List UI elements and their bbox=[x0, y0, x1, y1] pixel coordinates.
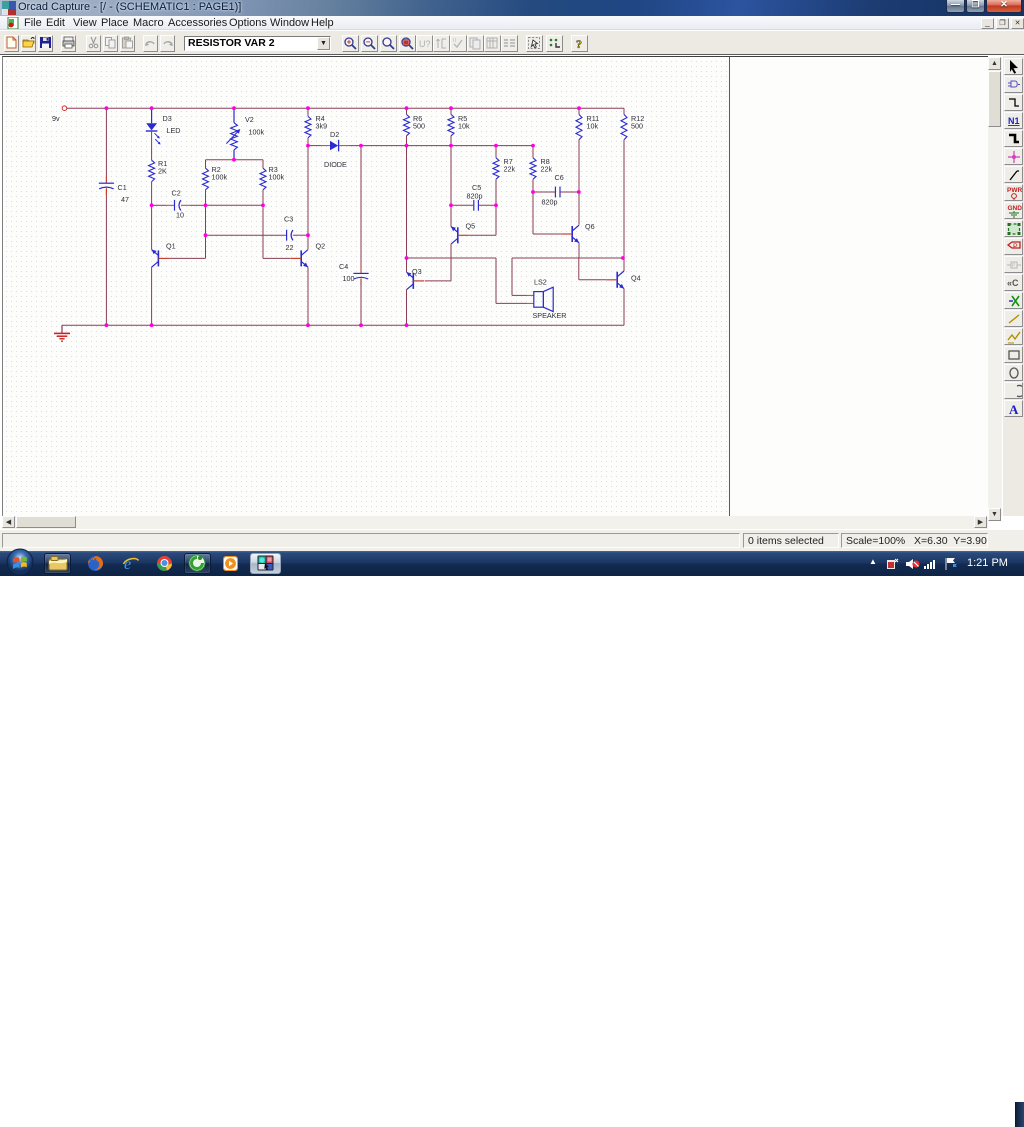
wire (C5 to R7 node) bbox=[478, 204, 496, 206]
wire (R2 top lead) bbox=[205, 160, 207, 169]
transistor Q2 bbox=[301, 250, 308, 268]
wire (Q1 base wire) bbox=[169, 257, 205, 259]
resistor R6 bbox=[404, 114, 410, 135]
wire (Q2 collector up) bbox=[307, 235, 309, 249]
junction bbox=[494, 203, 498, 207]
wire (C4 top lead) bbox=[360, 146, 362, 274]
wire (R6 bottom lead) bbox=[406, 136, 408, 146]
transistor Q4 base pin bbox=[606, 279, 617, 281]
wire (R8 top lead) bbox=[532, 146, 534, 158]
wire (Q1 collector to ground rail) bbox=[151, 267, 153, 325]
wire (C6 to R11 node) bbox=[560, 191, 579, 193]
capacitor C2 (polarized) bbox=[175, 200, 181, 211]
wire (9v top rail) bbox=[67, 107, 624, 109]
schematic drawing bbox=[0, 0, 1024, 576]
wire (node to Q5 emitter) bbox=[450, 205, 452, 226]
svg-text:▣: ▣ bbox=[402, 38, 410, 47]
svg-text:−: − bbox=[366, 38, 371, 47]
junction bbox=[494, 144, 498, 148]
junction bbox=[306, 233, 310, 237]
junction bbox=[621, 256, 625, 260]
resistor R2 bbox=[203, 168, 209, 190]
transistor Q3 bbox=[407, 272, 414, 290]
junction bbox=[204, 203, 208, 207]
junction bbox=[150, 106, 154, 110]
resistor R8 bbox=[530, 158, 536, 179]
wire (to C5) bbox=[451, 204, 474, 206]
wire (Q6 collector up) bbox=[578, 192, 580, 225]
taskbar bbox=[0, 551, 1024, 576]
junction bbox=[306, 106, 310, 110]
capacitor C1 (polarized) bbox=[105, 176, 107, 183]
junction bbox=[405, 323, 409, 327]
wire (R7 top lead) bbox=[495, 146, 497, 158]
wire (to C2) bbox=[152, 204, 166, 206]
junction bbox=[449, 144, 453, 148]
horizontal scrollbar bbox=[2, 516, 988, 529]
wire (R11 bottom lead) bbox=[578, 140, 580, 192]
resistor R4 bbox=[305, 116, 311, 137]
wire (speaker upper riser) bbox=[511, 258, 513, 295]
capacitor C5 bbox=[474, 200, 479, 211]
right tool palette bbox=[1003, 56, 1024, 516]
wire (C1 top lead) bbox=[105, 108, 107, 183]
wire (Q6 emitter to Q4 base riser) bbox=[578, 258, 580, 280]
svg-text:P: P bbox=[1013, 244, 1018, 251]
wire (R7 bottom lead) bbox=[495, 179, 497, 205]
wire (R5 top lead) bbox=[450, 108, 452, 114]
wire (D3 cathode to R1) bbox=[151, 131, 153, 160]
toolbar bbox=[0, 31, 1024, 55]
resistor R5 bbox=[448, 114, 454, 135]
svg-text:U?: U? bbox=[419, 39, 431, 49]
transistor Q4 bbox=[617, 271, 624, 289]
wire (to Q2 base) bbox=[263, 257, 290, 259]
wire (to C6) bbox=[533, 191, 555, 193]
junction bbox=[405, 256, 409, 260]
wire (R12 line down) bbox=[623, 140, 625, 258]
transistor Q3 base pin bbox=[413, 280, 424, 282]
pin (D2 anode pin) bbox=[321, 145, 330, 147]
junction bbox=[232, 106, 236, 110]
wire (low rail right) bbox=[512, 257, 623, 259]
wire (R2 bottom lead) bbox=[205, 190, 207, 206]
capacitor C4 (polarized) bbox=[360, 266, 362, 273]
transistor Q6 bbox=[572, 225, 579, 243]
wire (Q5 base riser) bbox=[495, 205, 497, 235]
junction bbox=[449, 106, 453, 110]
wire (C2 to R2 node) bbox=[190, 204, 206, 206]
wire (R12 top lead) bbox=[623, 108, 625, 114]
resistor R11 bbox=[576, 114, 582, 139]
wire (R2-R3 top) bbox=[206, 159, 264, 161]
wire (R8 line down) bbox=[532, 192, 534, 234]
junction bbox=[306, 323, 310, 327]
wire (R5 line to C5 node) bbox=[450, 146, 452, 206]
wire (R3 bottom lead) bbox=[262, 190, 264, 206]
wire (R2 node down) bbox=[205, 205, 207, 235]
wire (R3 node to Q2 base riser) bbox=[262, 205, 264, 258]
wire (R4 line down) bbox=[307, 146, 309, 236]
svg-text:?: ? bbox=[576, 37, 582, 51]
junction bbox=[359, 323, 363, 327]
resistor R12 bbox=[621, 114, 627, 139]
transistor Q5 base pin bbox=[458, 234, 469, 236]
wire (R5 bottom lead) bbox=[450, 136, 452, 146]
vertical scrollbar bbox=[988, 57, 1002, 516]
wire (R6 top lead) bbox=[406, 108, 408, 114]
wire (Q3 collector to ground) bbox=[406, 290, 408, 326]
capacitor C6 bbox=[555, 187, 560, 198]
wire (R2-R3 bottom) bbox=[206, 204, 264, 206]
wire (R3 top lead) bbox=[262, 160, 264, 169]
junction bbox=[306, 144, 310, 148]
drawing canvas bbox=[2, 56, 988, 516]
wire (Q1 base riser) bbox=[205, 235, 207, 258]
junction bbox=[204, 233, 208, 237]
wire (R8 bottom lead) bbox=[532, 179, 534, 192]
junction bbox=[405, 106, 409, 110]
pin (C2 right pin) bbox=[181, 204, 190, 206]
svg-text:+: + bbox=[347, 38, 352, 47]
junction bbox=[531, 144, 535, 148]
transistor Q1 base pin bbox=[158, 257, 169, 259]
wire (R1 bottom lead) bbox=[151, 182, 153, 206]
junction bbox=[449, 203, 453, 207]
wire (Q4 collector up) bbox=[623, 258, 625, 271]
resistor R3 bbox=[260, 168, 266, 190]
LED D3 bbox=[146, 108, 161, 144]
junction bbox=[150, 323, 154, 327]
svg-text:GND: GND bbox=[1007, 205, 1022, 212]
svg-text:PWR: PWR bbox=[1007, 187, 1022, 194]
wire (Q4 emitter to rail end) bbox=[623, 289, 625, 326]
wire (to speaker lower pin) bbox=[496, 302, 527, 304]
svg-text:N1: N1 bbox=[1008, 116, 1020, 126]
window title bar bbox=[0, 0, 1024, 16]
wire (Q5 base wire) bbox=[469, 234, 496, 236]
node 9v (power node circle) bbox=[62, 106, 67, 111]
transistor Q6 base pin bbox=[561, 233, 572, 235]
wire (R6 line down) bbox=[406, 146, 408, 258]
junction bbox=[405, 144, 409, 148]
junction bbox=[577, 190, 581, 194]
diode D2 bbox=[330, 140, 339, 152]
junction bbox=[577, 106, 581, 110]
transistor Q1 bbox=[152, 250, 159, 268]
capacitor C3 (polarized) bbox=[287, 230, 293, 241]
pin (LS2 pin 1) bbox=[527, 294, 534, 296]
resistor R7 bbox=[493, 158, 499, 179]
ground bbox=[54, 325, 70, 342]
wire (node to Q1 emitter) bbox=[151, 205, 153, 249]
junction bbox=[359, 144, 363, 148]
speaker LS2 bbox=[534, 287, 553, 311]
wire (C4 bottom lead) bbox=[360, 279, 362, 325]
wire (R4 top lead) bbox=[307, 108, 309, 116]
wire (D2 output rail) bbox=[349, 145, 533, 147]
wire (ground bottom rail) bbox=[62, 324, 624, 326]
wire (R11 top lead) bbox=[578, 108, 580, 114]
wire (low rail left) bbox=[407, 257, 497, 259]
junction bbox=[232, 158, 236, 162]
junction bbox=[105, 323, 109, 327]
junction bbox=[531, 190, 535, 194]
wire (Q3 emitter up) bbox=[406, 258, 408, 272]
svg-text:«C: «C bbox=[1007, 278, 1019, 288]
wire (Q5 to Q3 base) bbox=[425, 280, 451, 282]
wire (Q2 emitter to ground) bbox=[307, 267, 309, 325]
status bar bbox=[0, 530, 1024, 551]
pin (C2 left pin) bbox=[166, 204, 175, 206]
junction bbox=[150, 203, 154, 207]
wire (speaker lower riser) bbox=[495, 258, 497, 303]
svg-text:A: A bbox=[1009, 402, 1019, 417]
variable resistor V2 bbox=[226, 108, 240, 160]
wire (to Q4 base) bbox=[579, 279, 606, 281]
wire (C3 to R4 line) bbox=[293, 234, 308, 236]
wire (R4 bottom lead) bbox=[307, 138, 309, 146]
wire (Q6 emitter down) bbox=[578, 243, 580, 258]
junction bbox=[261, 203, 265, 207]
wire (Q5 collector down) bbox=[450, 244, 452, 281]
pin (LS2 pin 2) bbox=[527, 302, 534, 304]
wire (to speaker upper pin) bbox=[512, 294, 527, 296]
resistor R1 bbox=[149, 160, 155, 181]
menu bar bbox=[0, 16, 1024, 30]
wire (to Q6 base) bbox=[533, 233, 561, 235]
transistor Q2 base pin bbox=[290, 257, 301, 259]
pin (D2 cathode pin) bbox=[339, 145, 349, 147]
wire (to C3) bbox=[206, 234, 287, 236]
transistor Q5 bbox=[451, 227, 458, 245]
junction bbox=[105, 106, 109, 110]
wire (C1 bottom lead) bbox=[105, 189, 107, 325]
wire (to D2) bbox=[308, 145, 321, 147]
